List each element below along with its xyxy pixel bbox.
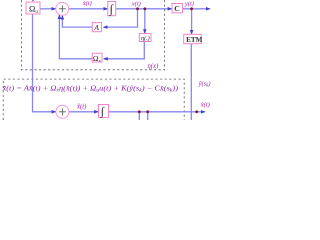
svg-text:ẋ(t): ẋ(t) (82, 0, 92, 7)
wire stub down from node2 on xhat wire (147, 112, 149, 120)
wire A to sum1 feedback (62, 16, 92, 27)
svg-text:x(t): x(t) (131, 1, 141, 8)
wire stub down from node1 on xhat wire (138, 112, 140, 120)
integrator block 1 (108, 2, 116, 16)
svg-text:Ω: Ω (29, 4, 35, 14)
svg-text:A: A (93, 23, 99, 32)
summing junction 1 (56, 2, 69, 15)
wire C to right edge y(t) (183, 8, 210, 10)
wire Omega_u to sum1 (40, 8, 55, 10)
ETM block (184, 34, 202, 43)
wire ETM down past xhat wire (190, 44, 192, 120)
node dot y(t) (190, 7, 193, 10)
gain block Omega_u (26, 2, 40, 14)
wire Omega_u down to sum2 (33, 14, 56, 112)
wire integrator1 to C (116, 8, 172, 10)
svg-text:x̂̇(t): x̂̇(t) (76, 103, 87, 110)
wire sum2 to integrator2 (69, 111, 98, 113)
wire node x(t) down to eta (144, 9, 146, 33)
wire Omega_x to sum1 feedback (59, 15, 92, 59)
node dot xhat 1 (138, 110, 141, 113)
node dot xhat 2 (146, 110, 149, 113)
wire y(t) node down to ETM (191, 9, 193, 34)
node dot x(t) 2 (143, 7, 146, 10)
nonlinearity block eta(.) (139, 34, 151, 42)
svg-text:∫: ∫ (109, 2, 114, 16)
plant dashed box (21, 0, 164, 70)
integrator block 2 (99, 105, 109, 118)
wire eta to Omega_x (104, 42, 145, 59)
wire u(t) stub into Omega_u (32, 0, 34, 1)
summing junction 2 (56, 105, 69, 118)
svg-text:x: x (98, 58, 101, 63)
wire sum1 to integrator1 (69, 8, 107, 10)
node dot xhat 3 (195, 110, 198, 113)
svg-text:ETM: ETM (186, 36, 203, 44)
wire node x(t) down to A (104, 9, 138, 27)
gain block Omega_x (92, 53, 102, 62)
svg-text:η(x): η(x) (147, 63, 159, 70)
gain block A (92, 23, 101, 32)
svg-text:y(t): y(t) (184, 0, 194, 7)
svg-text:x̂(t): x̂(t) (200, 102, 210, 109)
observer dashed box (3, 79, 184, 120)
svg-text:x̂̇(t) = Ax̂(t) + Ωxη(x̂(t)) +: x̂̇(t) = Ax̂(t) + Ωxη(x̂(t)) + Ωuu(t) + … (1, 85, 178, 94)
node dot x(t) 1 (136, 7, 139, 10)
wire integrator2 to right edge xhat(t) (109, 111, 205, 113)
output block C (172, 4, 183, 13)
svg-text:ŷ(sk): ŷ(sk) (198, 81, 211, 89)
svg-text:C: C (174, 4, 180, 13)
svg-text:η(.): η(.) (141, 35, 150, 42)
